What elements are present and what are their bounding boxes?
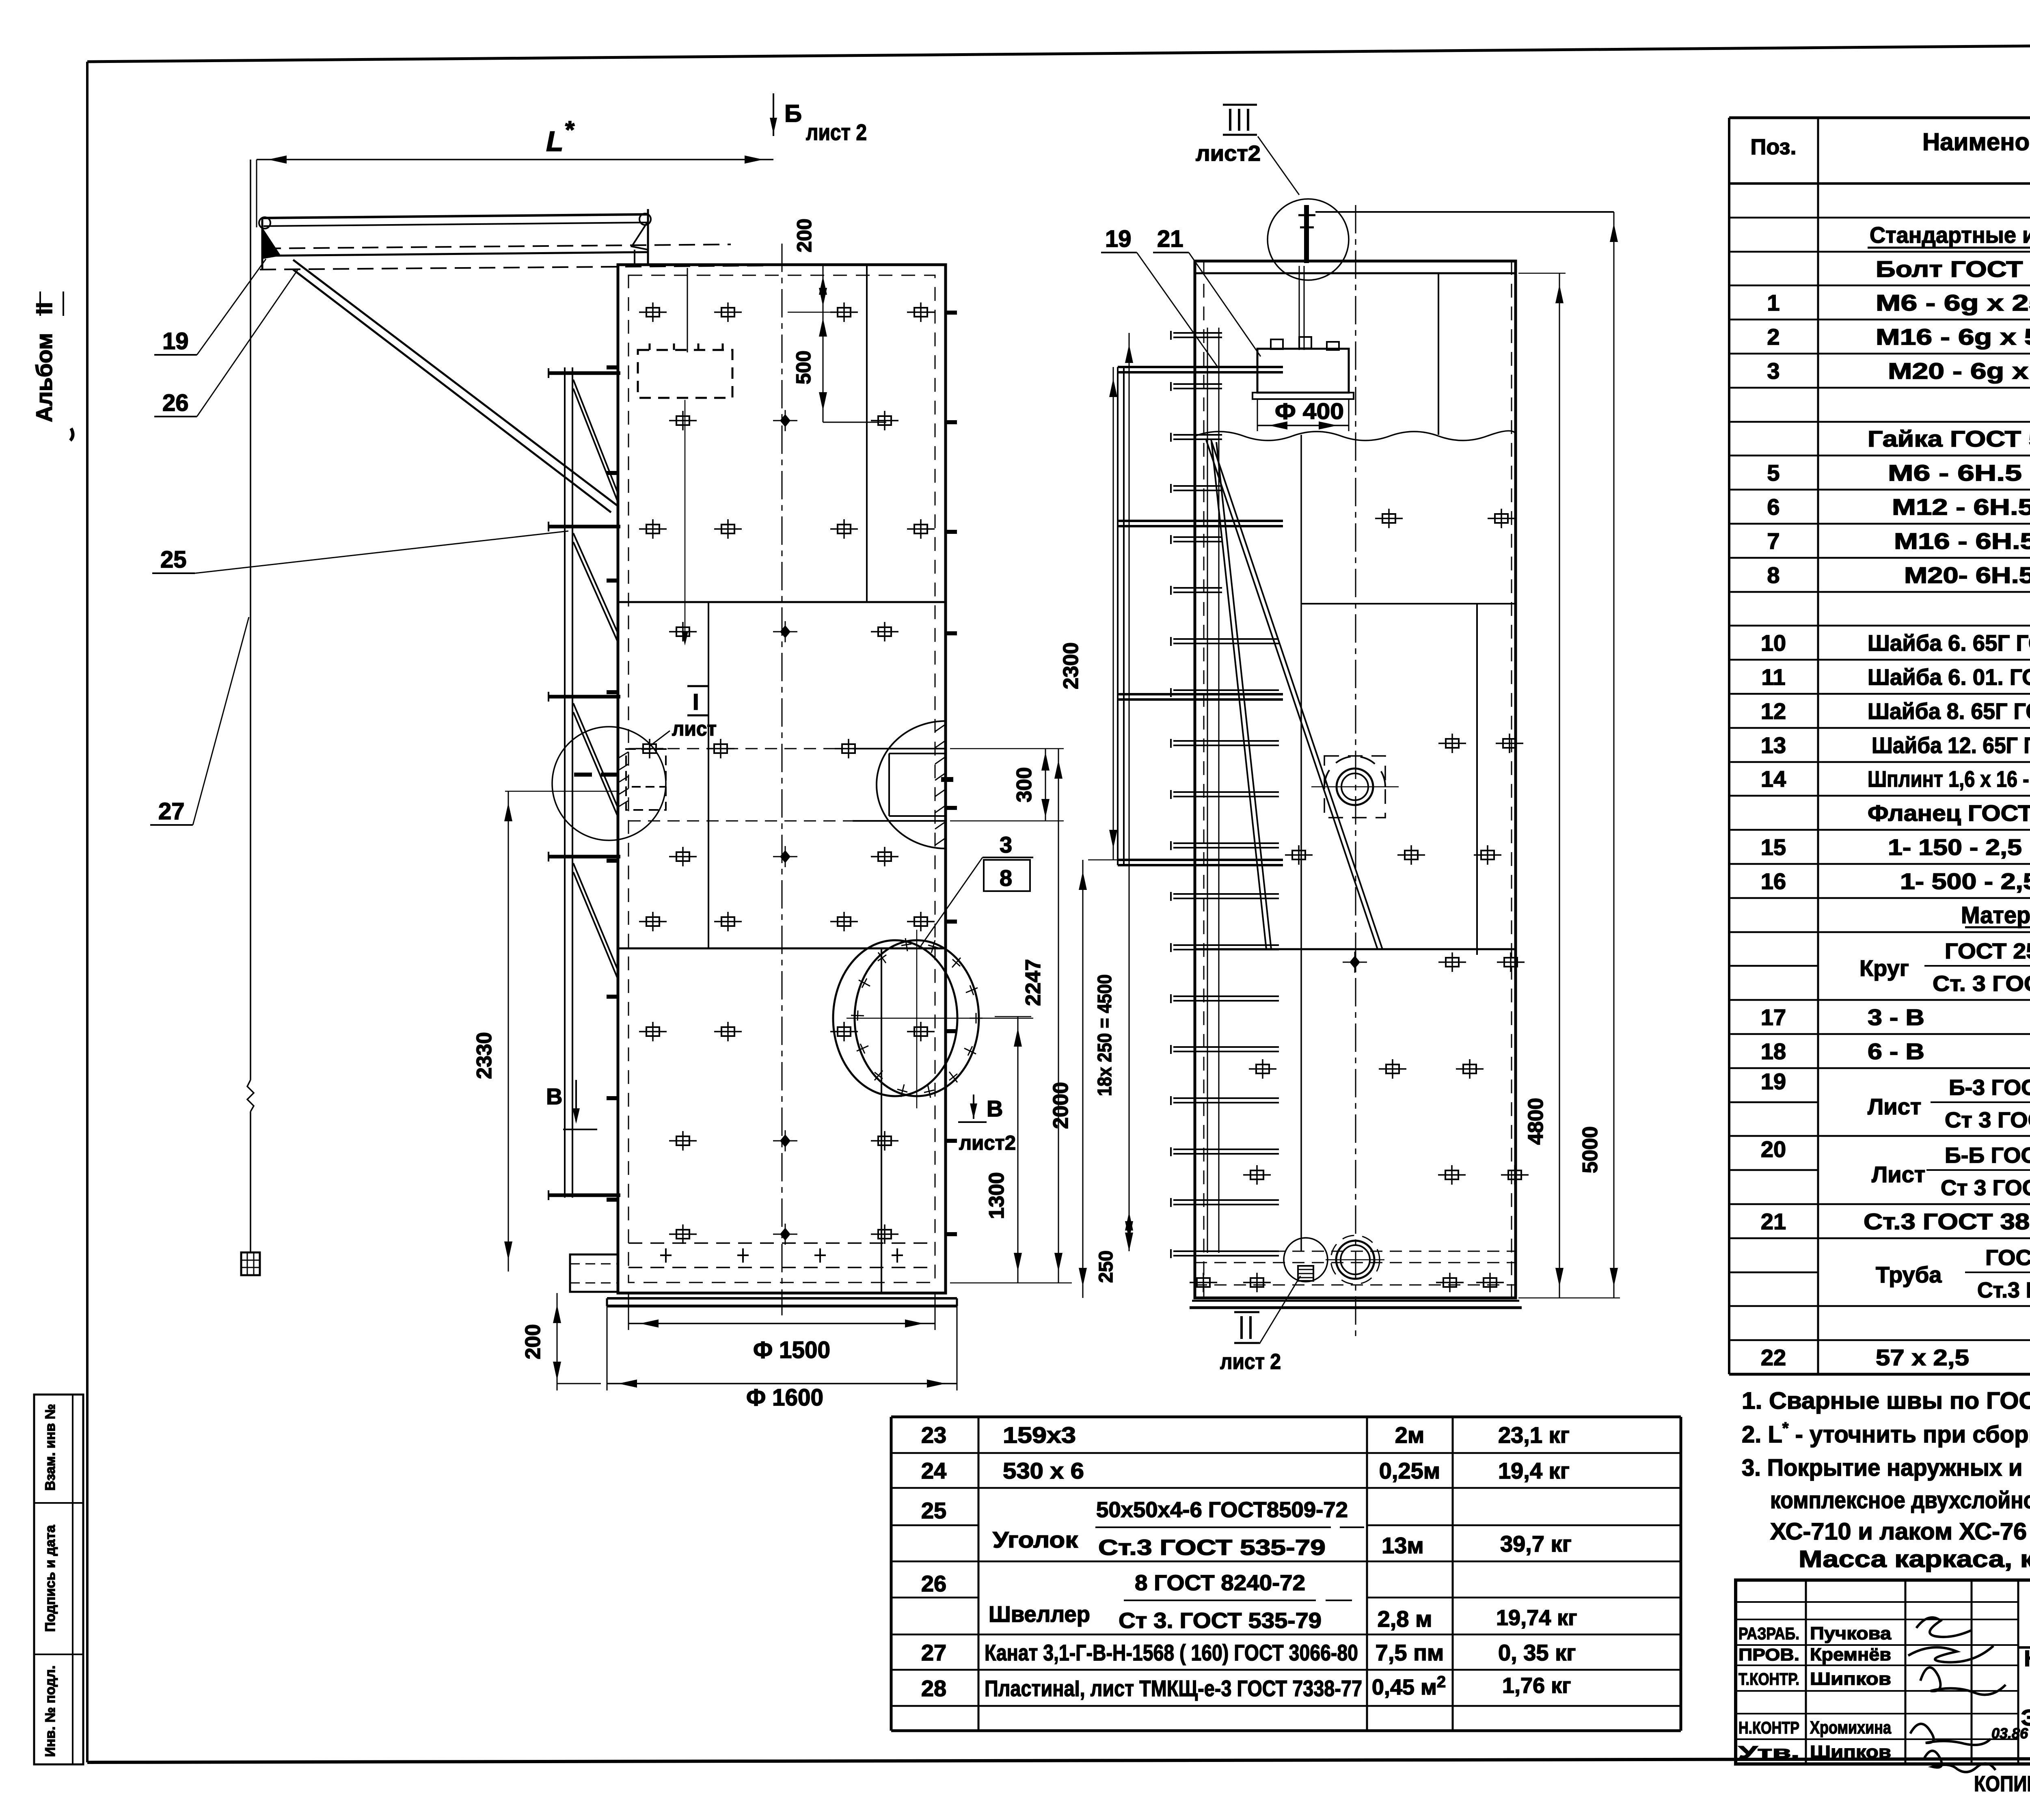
svg-text:Инв. № подл.: Инв. № подл.	[43, 1665, 58, 1757]
svg-text:27: 27	[921, 1640, 946, 1665]
svg-text:Шайба 6. 01. ГОСТ 10906-78: Шайба 6. 01. ГОСТ 10906-78	[1868, 664, 2030, 690]
svg-text:Стандартные изделия: Стандартные изделия	[1870, 222, 2030, 248]
svg-text:5000: 5000	[1579, 1126, 1602, 1173]
svg-text:Каркасно-засыпной: Каркасно-засыпной	[2024, 1645, 2030, 1671]
svg-text:8: 8	[1000, 865, 1012, 891]
svg-text:2,8 м: 2,8 м	[1378, 1606, 1432, 1632]
svg-text:Уголок: Уголок	[993, 1527, 1078, 1552]
svg-text:Ст.3 ГОСТ 380-71: Ст.3 ГОСТ 380-71	[1864, 1209, 2030, 1234]
svg-text:2: 2	[1767, 324, 1779, 350]
svg-text:13: 13	[1761, 732, 1786, 758]
svg-text:Ст. 3 ГОСТ 535-79: Ст. 3 ГОСТ 535-79	[1933, 972, 2030, 996]
svg-text:16: 16	[1761, 868, 1786, 894]
svg-text:19: 19	[1761, 1069, 1786, 1094]
svg-text:2000: 2000	[1049, 1082, 1073, 1129]
svg-text:159х3: 159х3	[1003, 1422, 1076, 1448]
svg-text:10: 10	[1761, 630, 1786, 656]
svg-text:300: 300	[1013, 767, 1036, 803]
svg-text:18: 18	[1761, 1038, 1786, 1064]
svg-text:В: В	[987, 1096, 1003, 1121]
svg-text:лист2: лист2	[1196, 141, 1261, 166]
svg-text:М16 - 6Н.5: М16 - 6Н.5	[1894, 528, 2030, 554]
svg-text:Ст 3 ГОСТ 16523-70: Ст 3 ГОСТ 16523-70	[1945, 1108, 2030, 1132]
svg-text:Эскизный чертеж: Эскизный чертеж	[2021, 1705, 2030, 1730]
svg-text:23: 23	[921, 1422, 946, 1448]
svg-text:0,25м: 0,25м	[1379, 1458, 1440, 1483]
svg-text:Ст 3. ГОСТ 535-79: Ст 3. ГОСТ 535-79	[1119, 1608, 1322, 1633]
svg-text:Ст.3 ГОСТ- 10706-76: Ст.3 ГОСТ- 10706-76	[1977, 1278, 2030, 1302]
svg-text:2247: 2247	[1021, 959, 1045, 1006]
svg-text:14: 14	[1761, 766, 1786, 792]
svg-text:19,4 кг: 19,4 кг	[1498, 1458, 1570, 1483]
svg-text:В: В	[546, 1084, 562, 1109]
svg-text:24: 24	[921, 1458, 946, 1483]
svg-text:Материалы: Материалы	[1961, 902, 2030, 928]
svg-text:Ф 1600: Ф 1600	[746, 1384, 823, 1411]
svg-text:530 х 6: 530 х 6	[1003, 1458, 1084, 1483]
svg-text:Кремнёв: Кремнёв	[1810, 1645, 1891, 1665]
svg-text:39,7 кг: 39,7 кг	[1500, 1531, 1572, 1557]
svg-text:18х 250 = 4500: 18х 250 = 4500	[1094, 974, 1116, 1096]
svg-text:Ст 3 ГОСТ 14637-79: Ст 3 ГОСТ 14637-79	[1941, 1176, 2030, 1200]
svg-text:25: 25	[160, 546, 187, 573]
svg-text:Лист: Лист	[1872, 1162, 1925, 1187]
svg-text:Шипков: Шипков	[1810, 1742, 1891, 1762]
svg-text:26: 26	[162, 390, 189, 416]
svg-text:21: 21	[1761, 1209, 1786, 1234]
svg-text:Б-Б ГОСТ 19903-74: Б-Б ГОСТ 19903-74	[1945, 1143, 2030, 1168]
svg-text:Шайба 8. 65Г ГОСТ 11371-78: Шайба 8. 65Г ГОСТ 11371-78	[1868, 698, 2030, 724]
svg-text:ХС-710 и лаком ХС-76 по: ХС-710 и лаком ХС-76 по ГОСТ9355-81.	[1770, 1518, 2030, 1545]
svg-text:Б-3 ГОСТ 19903-74: Б-3 ГОСТ 19903-74	[1949, 1075, 2030, 1100]
svg-text:27: 27	[158, 798, 185, 825]
svg-text:Гайка ГОСТ 5915-70: Гайка ГОСТ 5915-70	[1868, 426, 2030, 451]
svg-text:КОПИРОВАЛ: ХЮППЕНЕН: КОПИРОВАЛ: ХЮППЕНЕН	[1974, 1772, 2030, 1796]
svg-text:500: 500	[792, 350, 815, 384]
svg-text:ПластинаІ, лист ТМКЩ-е-3 ГОС: ПластинаІ, лист ТМКЩ-е-3 ГОСТ 7338-77	[985, 1675, 1362, 1701]
svg-text:19,74 кг: 19,74 кг	[1496, 1606, 1577, 1630]
svg-text:4800: 4800	[1524, 1098, 1548, 1145]
svg-text:1,76 кг: 1,76 кг	[1502, 1673, 1571, 1698]
svg-text:3. Покрытие наружных и внут: 3. Покрытие наружных и внутренних поверх…	[1742, 1455, 2030, 1481]
svg-text:Масса каркаса, кг - 850: Масса каркаса, кг - 850	[1799, 1546, 2030, 1572]
svg-text:лист 2: лист 2	[806, 119, 867, 145]
svg-text:1- 150 - 2,5: 1- 150 - 2,5	[1888, 834, 2022, 860]
svg-text:7: 7	[1767, 528, 1779, 554]
svg-text:28: 28	[921, 1675, 946, 1701]
svg-text:ПРОВ.: ПРОВ.	[1738, 1645, 1799, 1664]
svg-text:лист: лист	[672, 717, 717, 740]
svg-text:*: *	[565, 116, 575, 143]
svg-text:Пучкова: Пучкова	[1810, 1624, 1892, 1643]
svg-text:23,1 кг: 23,1 кг	[1498, 1422, 1570, 1448]
svg-text:I: I	[693, 689, 699, 715]
svg-text:Альбом: Альбом	[31, 333, 57, 422]
svg-text:Фланец ГОСТ 12820-80: Фланец ГОСТ 12820-80	[1868, 800, 2030, 826]
svg-text:19: 19	[162, 328, 189, 354]
svg-text:12: 12	[1761, 698, 1786, 724]
svg-text:1- 500 - 2,5: 1- 500 - 2,5	[1900, 868, 2030, 894]
svg-text:L: L	[546, 125, 564, 157]
svg-text:Болт ГОСТ 7798-70: Болт ГОСТ 7798-70	[1876, 256, 2030, 282]
svg-text:Швеллер: Швеллер	[989, 1601, 1090, 1627]
svg-text:50х50х4-6 ГОСТ8509-72: 50х50х4-6 ГОСТ8509-72	[1096, 1498, 1348, 1522]
svg-text:19: 19	[1105, 226, 1132, 252]
svg-text:Шипков: Шипков	[1810, 1669, 1891, 1689]
svg-text:21: 21	[1157, 226, 1183, 252]
svg-text:М20 - 6g х 50.58: М20 - 6g х 50.58	[1888, 358, 2030, 384]
svg-text:комплексное двухслойное, гру: комплексное двухслойное, грунтом ХС-010,…	[1770, 1487, 2030, 1513]
svg-text:Наименование: Наименование	[1922, 128, 2030, 155]
svg-text:Шайба 6. 65Г ГОСТ6402-70: Шайба 6. 65Г ГОСТ6402-70	[1868, 630, 2030, 656]
svg-text:лист 2: лист 2	[1220, 1349, 1281, 1374]
svg-text:лист2: лист2	[959, 1131, 1016, 1154]
svg-text:Ст.3 ГОСТ 535-79: Ст.3 ГОСТ 535-79	[1098, 1535, 1326, 1560]
svg-text:Ф 400: Ф 400	[1275, 398, 1344, 424]
svg-text:Канат 3,1-Г-В-Н-1568 ( 160): Канат 3,1-Г-В-Н-1568 ( 160) ГОСТ 3066-80	[985, 1640, 1358, 1665]
svg-text:РАЗРАБ.: РАЗРАБ.	[1738, 1624, 1799, 1643]
svg-text:Т.КОНТР.: Т.КОНТР.	[1738, 1669, 1799, 1688]
svg-text:6: 6	[1767, 494, 1779, 520]
svg-text:М6 - 6Н.5: М6 - 6Н.5	[1888, 460, 2022, 486]
svg-text:2м: 2м	[1395, 1422, 1425, 1448]
svg-text:Н.КОНТР: Н.КОНТР	[1738, 1718, 1799, 1737]
svg-text:200: 200	[793, 218, 816, 252]
svg-text:Труба: Труба	[1876, 1262, 1942, 1287]
svg-text:Подпись и дата: Подпись и дата	[43, 1524, 58, 1632]
svg-text:ГОСТ 10704-76: ГОСТ 10704-76	[1985, 1246, 2030, 1270]
svg-text:250: 250	[1095, 1250, 1117, 1283]
svg-text:1. Сварные швы по ГОСТ5264: 1. Сварные швы по ГОСТ5264-80.	[1742, 1388, 2030, 1414]
svg-text:15: 15	[1761, 834, 1786, 860]
svg-text:ГОСТ 2590-71: ГОСТ 2590-71	[1945, 939, 2030, 963]
svg-text:5: 5	[1767, 460, 1779, 486]
svg-text:3: 3	[1000, 832, 1012, 857]
svg-text:20: 20	[1761, 1136, 1786, 1162]
svg-text:57 х 2,5: 57 х 2,5	[1876, 1345, 1969, 1370]
svg-text:7,5 пм: 7,5 пм	[1376, 1640, 1444, 1665]
svg-text:3: 3	[1767, 358, 1779, 384]
svg-text:6 - В: 6 - В	[1868, 1038, 1924, 1064]
svg-text:17: 17	[1761, 1004, 1786, 1030]
svg-text:22: 22	[1761, 1345, 1786, 1370]
svg-text:0, 35 кг: 0, 35 кг	[1498, 1640, 1576, 1665]
svg-text:Шплинт 1,6 х 16 - 01 ГОСТ 3: Шплинт 1,6 х 16 - 01 ГОСТ 397-79	[1868, 766, 2030, 792]
svg-text:3 - В: 3 - В	[1868, 1004, 1924, 1030]
svg-text:25: 25	[921, 1498, 946, 1523]
svg-text:1300: 1300	[985, 1172, 1009, 1219]
svg-text:200: 200	[521, 1324, 545, 1360]
svg-text:Хромихина: Хромихина	[1810, 1718, 1891, 1738]
svg-text:Ф 1500: Ф 1500	[753, 1337, 830, 1363]
svg-text:13м: 13м	[1382, 1533, 1424, 1558]
svg-text:М6 - 6g х 25.58: М6 - 6g х 25.58	[1876, 290, 2030, 315]
svg-text:8: 8	[1767, 562, 1779, 588]
svg-text:8 ГОСТ 8240-72: 8 ГОСТ 8240-72	[1135, 1571, 1305, 1595]
svg-text:Утв.: Утв.	[1738, 1742, 1799, 1762]
svg-text:Лист: Лист	[1868, 1094, 1921, 1119]
svg-text:0,45 м2: 0,45 м2	[1372, 1673, 1446, 1699]
svg-text:11: 11	[1761, 664, 1785, 690]
svg-text:II: II	[31, 302, 57, 315]
svg-text:Круг: Круг	[1859, 955, 1909, 981]
svg-text:26: 26	[921, 1571, 946, 1596]
svg-text:Б: Б	[784, 100, 802, 127]
svg-text:Шайба 12. 65Г ГОСТ 11371-7: Шайба 12. 65Г ГОСТ 11371-78	[1872, 732, 2030, 758]
svg-text:М16 - 6g х 50.58: М16 - 6g х 50.58	[1876, 324, 2030, 350]
svg-text:2330: 2330	[473, 1032, 496, 1079]
svg-text:М12 - 6Н.5: М12 - 6Н.5	[1892, 494, 2030, 520]
svg-text:М20- 6Н.5.: М20- 6Н.5.	[1904, 562, 2030, 588]
svg-text:Поз.: Поз.	[1751, 135, 1797, 159]
svg-text:Взам. инв №: Взам. инв №	[43, 1404, 58, 1491]
svg-text:1: 1	[1767, 290, 1779, 315]
svg-text:2300: 2300	[1059, 642, 1083, 689]
